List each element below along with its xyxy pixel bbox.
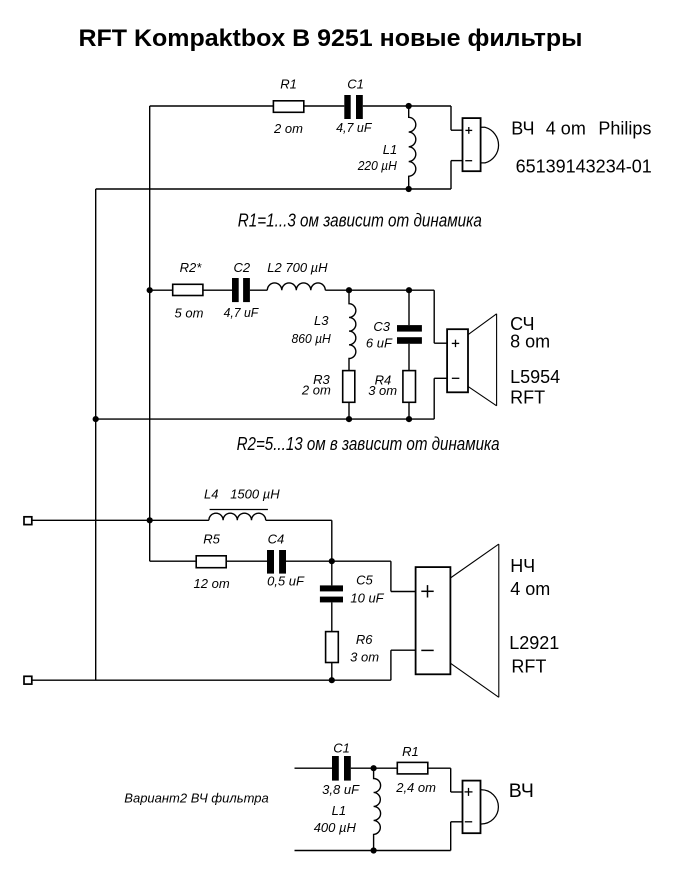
svg-text:L2 700 µH: L2 700 µH bbox=[267, 260, 328, 275]
svg-text:10 uF: 10 uF bbox=[350, 590, 384, 605]
svg-text:4 om: 4 om bbox=[546, 119, 586, 139]
svg-text:ВЧ: ВЧ bbox=[509, 780, 534, 802]
svg-text:RFT: RFT bbox=[510, 387, 545, 407]
svg-text:R6: R6 bbox=[356, 632, 373, 647]
svg-text:L3: L3 bbox=[314, 313, 329, 328]
svg-text:2,4 om: 2,4 om bbox=[395, 780, 436, 795]
svg-text:R1: R1 bbox=[402, 744, 419, 759]
svg-text:L5954: L5954 bbox=[510, 367, 560, 387]
svg-text:Philips: Philips bbox=[598, 119, 651, 139]
svg-text:2 om: 2 om bbox=[301, 383, 331, 398]
svg-text:Вариант2 ВЧ фильтра: Вариант2 ВЧ фильтра bbox=[124, 791, 268, 806]
svg-text:ВЧ: ВЧ bbox=[511, 119, 534, 139]
svg-text:R1=1...3 ом зависит от динамик: R1=1...3 ом зависит от динамика bbox=[238, 211, 482, 231]
svg-text:860 µH: 860 µH bbox=[292, 331, 332, 346]
svg-text:R2=5...13 ом в зависит от дина: R2=5...13 ом в зависит от динамика bbox=[237, 434, 500, 454]
svg-text:L4: L4 bbox=[204, 487, 218, 502]
svg-text:L1: L1 bbox=[383, 142, 397, 157]
svg-text:RFT: RFT bbox=[511, 657, 546, 677]
svg-text:4,7 uF: 4,7 uF bbox=[224, 305, 260, 320]
svg-text:C1: C1 bbox=[333, 740, 350, 755]
svg-text:C3: C3 bbox=[373, 319, 390, 334]
svg-text:2 om: 2 om bbox=[273, 121, 303, 136]
svg-text:RFT Kompaktbox B 9251 новые фи: RFT Kompaktbox B 9251 новые фильтры bbox=[79, 25, 583, 52]
svg-text:220 µH: 220 µH bbox=[357, 158, 398, 173]
svg-text:НЧ: НЧ bbox=[510, 556, 535, 576]
svg-text:C5: C5 bbox=[356, 572, 373, 587]
svg-text:C4: C4 bbox=[268, 532, 285, 547]
svg-text:C2: C2 bbox=[233, 260, 250, 275]
svg-text:R5: R5 bbox=[203, 532, 220, 547]
svg-text:5 om: 5 om bbox=[175, 306, 204, 321]
svg-text:C1: C1 bbox=[347, 77, 364, 92]
svg-text:3 om: 3 om bbox=[350, 649, 379, 664]
svg-text:12 om: 12 om bbox=[194, 576, 230, 591]
svg-text:4 om: 4 om bbox=[510, 579, 550, 599]
svg-text:6 uF: 6 uF bbox=[366, 336, 393, 351]
svg-text:R1: R1 bbox=[280, 77, 297, 92]
svg-text:1500 µH: 1500 µH bbox=[230, 487, 280, 502]
svg-text:4,7 uF: 4,7 uF bbox=[336, 120, 372, 135]
svg-text:0,5 uF: 0,5 uF bbox=[267, 574, 305, 589]
svg-text:400 µH: 400 µH bbox=[314, 820, 357, 835]
svg-text:R2*: R2* bbox=[180, 260, 203, 275]
svg-text:3 om: 3 om bbox=[368, 383, 397, 398]
svg-text:65139143234-01: 65139143234-01 bbox=[516, 157, 652, 177]
svg-text:3,8 uF: 3,8 uF bbox=[322, 782, 360, 797]
svg-text:L2921: L2921 bbox=[509, 633, 559, 653]
svg-text:L1: L1 bbox=[332, 803, 346, 818]
svg-text:8 om: 8 om bbox=[510, 332, 550, 352]
